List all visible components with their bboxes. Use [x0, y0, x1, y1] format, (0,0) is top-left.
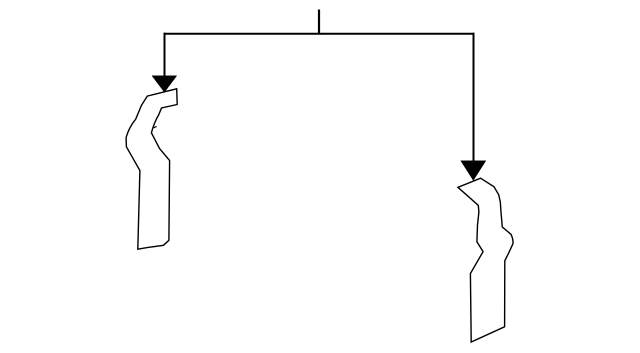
detail tick on left part	[154, 126, 157, 128]
wire: right drop	[473, 33, 475, 162]
wire: horizontal bar	[164, 33, 475, 35]
wire: top stub	[318, 10, 320, 34]
arrowhead: left	[152, 76, 177, 92]
part: right trim molding outline	[458, 178, 513, 342]
wire: left drop	[164, 33, 166, 77]
part: left trim molding outline	[126, 89, 177, 249]
arrowhead: right	[461, 161, 486, 181]
